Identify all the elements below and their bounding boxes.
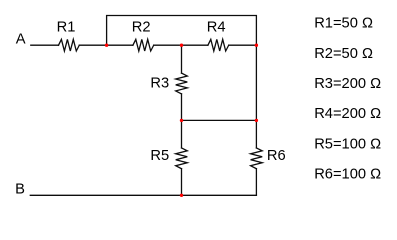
- svg-text:R1: R1: [57, 19, 76, 35]
- svg-text:R3=200 Ω: R3=200 Ω: [314, 76, 381, 92]
- svg-text:R4=200 Ω: R4=200 Ω: [314, 106, 381, 122]
- svg-text:R2: R2: [132, 19, 151, 35]
- svg-text:R5: R5: [150, 148, 169, 164]
- svg-text:R3: R3: [150, 75, 169, 91]
- svg-text:R2=50 Ω: R2=50 Ω: [314, 46, 373, 62]
- svg-text:R6: R6: [267, 148, 286, 164]
- svg-text:R5=100 Ω: R5=100 Ω: [314, 136, 381, 152]
- svg-text:R4: R4: [207, 19, 226, 35]
- svg-text:A: A: [16, 31, 26, 47]
- svg-text:R6=100 Ω: R6=100 Ω: [314, 167, 381, 183]
- svg-text:R1=50 Ω: R1=50 Ω: [314, 16, 373, 32]
- svg-text:B: B: [15, 182, 25, 198]
